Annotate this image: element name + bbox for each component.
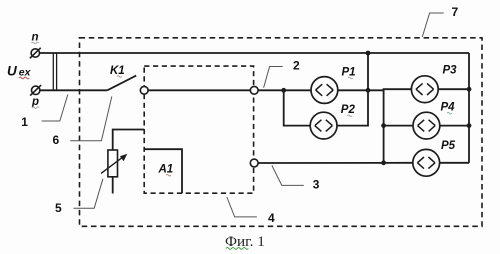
svg-text:K1: K1: [110, 65, 125, 77]
switch K1 blade: [107, 76, 136, 91]
junction dot P4 row right: [467, 123, 472, 128]
leader to node 3: [272, 166, 304, 186]
lamp P1: [311, 77, 338, 104]
dashed enclosure box 7: [80, 38, 483, 227]
cable marking (double line): [53, 53, 56, 90]
leader to switch 6: [70, 97, 112, 141]
squiggle under caption: [226, 248, 248, 250]
leader to cable 1: [42, 95, 68, 122]
wire junction to P3 group: [368, 89, 412, 90]
svg-text:6: 6: [53, 133, 60, 147]
lamp P3: [411, 76, 438, 103]
squiggle under P2: [347, 115, 352, 117]
wire P4 left: [384, 125, 413, 127]
wire P3 right: [438, 88, 469, 90]
squiggle under p: [32, 107, 39, 109]
junction dot P3 row right: [467, 87, 472, 92]
svg-text:P2: P2: [341, 104, 356, 116]
svg-text:p: p: [31, 96, 39, 108]
junction dot P4 row left: [381, 123, 386, 128]
wire top rail: [39, 52, 469, 54]
svg-text:P3: P3: [443, 65, 458, 77]
lamp P5: [413, 149, 440, 176]
junction dot P2 branch: [281, 88, 286, 93]
switch K1 fixed contact: [140, 86, 148, 94]
svg-text:4: 4: [268, 211, 275, 225]
wire node 3 to P5 row: [258, 162, 412, 164]
svg-text:A1: A1: [158, 164, 174, 176]
wire P4 right: [440, 125, 469, 127]
node 3 circle: [250, 159, 258, 167]
junction dot P5 row left: [381, 160, 386, 165]
svg-text:3: 3: [313, 178, 320, 192]
wire switch contact to node 2: [148, 89, 250, 91]
dashed box 4: [144, 66, 253, 193]
lamp P2: [310, 112, 337, 139]
resistor 5 top lead and wire to box 4: [113, 130, 145, 151]
node 2 circle: [250, 86, 258, 94]
leader to box 4: [227, 197, 257, 217]
wire junction up to top rail: [367, 53, 369, 90]
squiggle under P4: [447, 112, 452, 114]
leader to box 7: [422, 13, 443, 37]
svg-text:ex: ex: [19, 66, 32, 78]
squiggle under n: [32, 42, 39, 44]
svg-text:P5: P5: [441, 140, 456, 152]
squiggle under K1: [117, 76, 122, 78]
svg-text:P1: P1: [342, 66, 356, 78]
wire P1 to junction: [338, 89, 368, 91]
resistor 5 adjustment arrow: [101, 155, 125, 173]
junction dot 4-way: [366, 88, 371, 93]
wire left vertical of P3 group: [383, 89, 385, 163]
squiggle under ex: [19, 77, 29, 79]
block A1 outline: [144, 149, 182, 193]
wire branch to P2: [284, 90, 311, 125]
wire node 2 to P1: [258, 89, 311, 91]
terminal n: [30, 48, 41, 59]
svg-text:5: 5: [55, 201, 62, 215]
squiggle under P1: [348, 77, 353, 79]
wire P2 right then up: [337, 90, 368, 125]
resistor 5 bottom lead: [112, 177, 114, 194]
terminal p: [30, 85, 41, 96]
svg-text:7: 7: [452, 5, 459, 19]
lamp P4: [413, 112, 440, 139]
svg-text:P4: P4: [441, 102, 456, 114]
wire right vertical: [468, 53, 470, 163]
variable resistor 5 body: [108, 150, 118, 177]
leader to node 2: [264, 67, 283, 88]
junction dot top rail: [366, 51, 371, 56]
leader to resistor 5: [74, 179, 103, 208]
svg-text:1: 1: [21, 115, 28, 129]
svg-text:2: 2: [293, 59, 300, 73]
svg-text:U: U: [7, 63, 18, 78]
squiggle under A1: [166, 174, 171, 176]
wire bottom rail p to switch: [40, 89, 107, 91]
wire P5 right: [440, 162, 469, 164]
